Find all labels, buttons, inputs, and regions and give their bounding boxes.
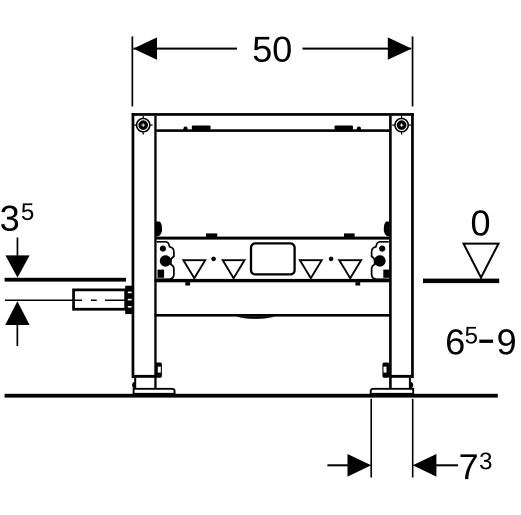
top rail dot right (357, 127, 361, 131)
rail dot right (329, 257, 334, 262)
lower band center bump (236, 317, 274, 319)
frame top rail outer line (132, 113, 414, 116)
top rail tab right (335, 126, 354, 130)
foot clip left (155, 363, 162, 378)
dimension arrow up tail (17, 325, 19, 346)
bracket lower block right (383, 270, 389, 278)
tab below rail left (185, 282, 190, 285)
dimension 50 extension line left (132, 36, 134, 106)
rail central plate (251, 243, 295, 274)
frame right leg inner line (389, 116, 392, 389)
dimension 73 tail left (327, 464, 348, 466)
dimension 73 arrow right (413, 454, 437, 477)
right foot plate (371, 389, 414, 394)
frame left leg inner line (154, 116, 156, 389)
dimension label 73 (460, 452, 491, 479)
left foot plate (134, 389, 175, 394)
left leg bottom line (134, 375, 157, 378)
rail triangle 4 (339, 260, 361, 278)
right leg bottom line (389, 375, 412, 378)
dimension arrow up (5, 301, 29, 325)
foot clip right (382, 363, 389, 378)
dimension 73 tail right (436, 464, 458, 466)
corner screw left (134, 116, 153, 135)
top rail tab left (192, 126, 211, 130)
mid rail top line (157, 237, 390, 240)
right foot tube line (409, 378, 411, 389)
dimension 50 line left segment (134, 48, 238, 50)
hanger bracket left (157, 242, 174, 279)
left foot side bump (132, 382, 135, 389)
dimension 35 arrow down (5, 255, 29, 277)
frame right leg outer line (411, 113, 414, 378)
dimension 35 leader down (17, 238, 19, 256)
range label 65-9 (447, 327, 515, 355)
mid rail side blob left (157, 222, 163, 237)
corner screw right (392, 116, 411, 135)
mid rail side blob right (384, 222, 390, 237)
frame left leg outer line (132, 113, 135, 378)
dimension 73 extension line right (412, 399, 414, 478)
rail triangle 2 (223, 260, 245, 278)
dimension 50 arrow right (388, 37, 412, 59)
ground line (5, 394, 498, 398)
datum level line (423, 279, 499, 284)
frame top rail inner line (157, 129, 390, 132)
lower band bottom line (154, 314, 391, 317)
datum triangle (464, 244, 499, 278)
water supply pipe (72, 289, 127, 311)
dimension 73 arrow left (348, 454, 372, 477)
pipe axis line (5, 300, 82, 302)
bracket lower block left (158, 270, 165, 278)
hanger bracket right (372, 242, 389, 279)
pipe end cap (125, 286, 132, 314)
dimension 50 line right segment (303, 48, 412, 50)
dimension 35 label (1, 203, 33, 231)
rail dot left (211, 257, 216, 262)
datum 0 label (472, 210, 489, 235)
right foot side bump (410, 382, 413, 389)
mid rail tab above right (344, 233, 355, 236)
dimension label 50 (254, 36, 291, 61)
top rail dot left (183, 127, 187, 131)
left floor level line (5, 278, 126, 282)
rail triangle 3 (300, 260, 322, 278)
dimension 50 arrow left (133, 37, 157, 59)
rail bottom line (154, 279, 391, 282)
rail triangle 1 (183, 260, 205, 278)
left foot tube line (134, 378, 136, 389)
mid rail tab above left (206, 233, 217, 236)
tab below rail right (355, 282, 360, 285)
dimension 50 extension line right (412, 36, 414, 106)
dimension 73 extension line left (370, 399, 372, 478)
